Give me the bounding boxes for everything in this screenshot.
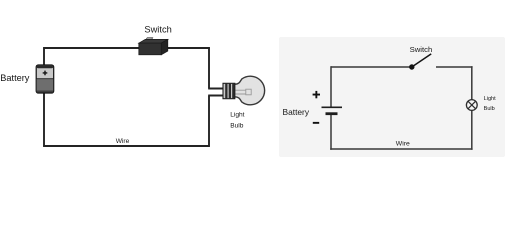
battery (pictorial cell)	[36, 65, 54, 93]
label: Light Bulb (left diagram)	[230, 112, 244, 130]
wire: schematic top-left segment (corner to switch pole)	[331, 66, 410, 68]
svg-text:Light: Light	[230, 112, 244, 119]
label: Wire (schematic)	[396, 140, 410, 147]
light bulb screw base	[223, 83, 235, 98]
wire: schematic right lower segment (lamp to corner)	[471, 110, 473, 149]
svg-text:Switch: Switch	[410, 45, 433, 54]
label: Switch (left diagram)	[144, 25, 171, 35]
light bulb (pictorial): glass globe	[235, 76, 265, 105]
switch (pictorial 3D box)	[139, 38, 168, 55]
wire: schematic left upper segment (corner to battery +)	[330, 66, 332, 107]
wire: bulb bottom lead stub	[208, 95, 223, 97]
svg-text:Battery: Battery	[0, 73, 30, 83]
svg-text:Light: Light	[484, 96, 497, 102]
wire: left loop top segment	[43, 47, 210, 49]
label: Battery (schematic)	[283, 107, 310, 117]
wire: bulb top lead stub	[208, 88, 223, 90]
label: Battery (left diagram)	[0, 73, 30, 83]
svg-text:Wire: Wire	[396, 140, 410, 147]
svg-text:Bulb: Bulb	[484, 106, 495, 112]
svg-text:Wire: Wire	[116, 138, 130, 145]
battery symbol BT1: positive plate (long)	[322, 106, 343, 108]
battery - polarity mark	[313, 122, 319, 124]
switch symbol SW1: lever arm	[412, 54, 431, 67]
svg-text:Bulb: Bulb	[230, 123, 244, 130]
wire: schematic bottom segment	[330, 148, 472, 150]
wire: schematic right upper segment (corner to lamp)	[471, 66, 473, 99]
label: Wire (left diagram)	[116, 138, 130, 145]
light bulb filament	[236, 89, 252, 95]
svg-text:Switch: Switch	[144, 25, 171, 35]
schematic background panel	[279, 37, 505, 157]
label: Switch (schematic)	[410, 45, 433, 54]
wire: left loop bottom segment	[43, 145, 210, 147]
battery symbol BT1: negative plate (short thick)	[326, 112, 338, 115]
wire: schematic top-right segment (switch throw to corner)	[436, 66, 473, 68]
lamp symbol DS1: circle	[466, 100, 477, 111]
wire: left loop left segment	[43, 47, 45, 147]
svg-text:Battery: Battery	[283, 107, 310, 117]
wire: right segment upper (to bulb top lead)	[208, 47, 210, 88]
switch symbol SW1: pole contact dot	[409, 64, 414, 69]
wire: schematic left lower segment (battery - to corner)	[330, 114, 332, 150]
wire: right segment lower (from bulb bottom lead)	[208, 96, 210, 147]
label: Light Bulb (schematic)	[484, 96, 497, 112]
lamp symbol DS1: cross	[468, 101, 475, 108]
battery + polarity mark	[313, 91, 320, 98]
